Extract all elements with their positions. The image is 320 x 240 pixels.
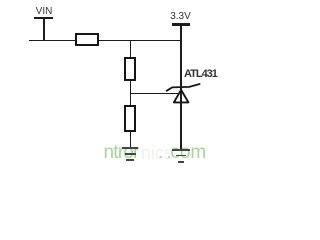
watermark gray dots xyxy=(158,142,175,164)
resistor R2 (upper divider, vertical) xyxy=(124,57,136,81)
wire divider middle xyxy=(130,81,132,105)
cathode bar (bent) xyxy=(167,84,200,91)
wire main horizontal xyxy=(29,40,182,42)
watermark green com xyxy=(171,142,207,164)
label ATL431 xyxy=(184,68,217,80)
wire 3.3V stem / cathode / anode vertical xyxy=(180,26,182,149)
triangle (anode to cathode) xyxy=(174,90,189,103)
ground right xyxy=(172,149,189,151)
node VIN label xyxy=(35,6,53,17)
shunt regulator U1 ATL431 symbol xyxy=(160,80,205,106)
wire divider top stem xyxy=(130,41,132,57)
wire VIN stem xyxy=(43,19,45,39)
power rail 3.3V bar xyxy=(172,23,190,26)
resistor R3 (lower divider, vertical) xyxy=(124,105,136,132)
wire divider bottom xyxy=(130,132,132,148)
resistor R1 (series, horizontal) xyxy=(75,33,99,46)
wire reference (divider tap to ATL431) xyxy=(131,93,178,95)
node 3.3V label xyxy=(168,11,193,22)
watermark faint middle xyxy=(141,143,173,164)
watermark text green xyxy=(104,142,139,164)
power rail VIN bar xyxy=(34,17,53,19)
ground left xyxy=(122,147,139,149)
